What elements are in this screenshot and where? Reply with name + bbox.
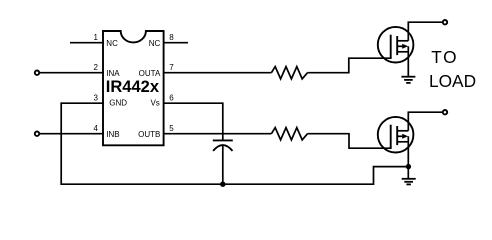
resistor R2 <box>271 128 307 140</box>
svg-text:INB: INB <box>106 130 119 139</box>
svg-text:5: 5 <box>169 124 174 133</box>
wire C1 bottom lead <box>222 146 224 185</box>
svg-text:Vs: Vs <box>150 99 159 108</box>
Q2 channel bar <box>396 126 398 145</box>
svg-text:IR442x: IR442x <box>106 78 160 96</box>
wire ground bus rail <box>61 102 408 184</box>
svg-text:LOAD: LOAD <box>429 71 476 91</box>
Q1 body arrow <box>402 44 408 49</box>
svg-text:2: 2 <box>94 63 99 72</box>
svg-text:4: 4 <box>94 124 99 133</box>
input terminal INB <box>35 132 39 136</box>
svg-text:NC: NC <box>106 39 118 48</box>
wire Q2 drain to terminal <box>408 112 443 131</box>
wire pin7 OUTA to resistor <box>164 72 272 74</box>
input terminal INA <box>35 71 39 75</box>
wire INB terminal to pin4 <box>39 133 104 135</box>
output terminal bottom <box>443 110 447 114</box>
IC U1 IR442x gate-driver body with notch <box>103 31 164 145</box>
capacitor C1 top plate <box>213 139 233 141</box>
junction dot Q2 source to rail <box>406 164 411 169</box>
Q1 channel bar <box>396 36 398 55</box>
transistor Q2 circle <box>378 117 414 153</box>
transistor Q1 circle <box>378 27 414 63</box>
ground symbol top <box>401 77 415 83</box>
junction dot C1 to rail <box>220 182 225 187</box>
Q2 body stub <box>397 135 402 137</box>
svg-text:6: 6 <box>169 93 174 102</box>
wire Q1 drain to terminal <box>408 22 443 41</box>
wire Q2 source to ground <box>407 136 409 178</box>
wire pin1 stub <box>70 42 104 44</box>
Q2 drain stub <box>397 130 408 132</box>
Q1 body stub <box>397 45 402 47</box>
svg-text:3: 3 <box>94 93 99 102</box>
svg-text:INA: INA <box>106 69 120 78</box>
Q1 drain stub <box>397 40 408 42</box>
wire pin3 GND stub <box>61 102 104 104</box>
wire pin8 stub <box>164 42 188 44</box>
Q2 source stub <box>397 141 408 143</box>
Q2 gate bar <box>390 125 392 149</box>
output terminal top <box>443 20 447 24</box>
ground symbol bottom <box>402 179 416 185</box>
svg-text:TO: TO <box>431 47 458 67</box>
svg-text:1: 1 <box>94 33 99 42</box>
svg-text:8: 8 <box>169 33 174 42</box>
Q1 gate bar <box>390 35 392 59</box>
wire R2 to Q2 gate <box>308 134 392 149</box>
svg-text:NC: NC <box>149 39 161 48</box>
resistor R1 <box>271 67 307 79</box>
Q1 source stub <box>397 51 408 53</box>
capacitor C1 curved plate <box>213 145 232 151</box>
svg-text:GND: GND <box>109 99 127 108</box>
svg-text:7: 7 <box>169 63 174 72</box>
svg-text:OUTA: OUTA <box>139 69 161 78</box>
svg-text:OUTB: OUTB <box>138 130 160 139</box>
Q2 body arrow <box>402 134 408 139</box>
wire Q1 source to ground <box>407 46 409 76</box>
wire pin5 OUTB to resistor <box>164 133 272 135</box>
wire INA terminal to pin2 <box>39 72 104 74</box>
wire pin6 Vs to capacitor <box>164 103 223 140</box>
wire R1 to Q1 gate <box>308 58 392 72</box>
